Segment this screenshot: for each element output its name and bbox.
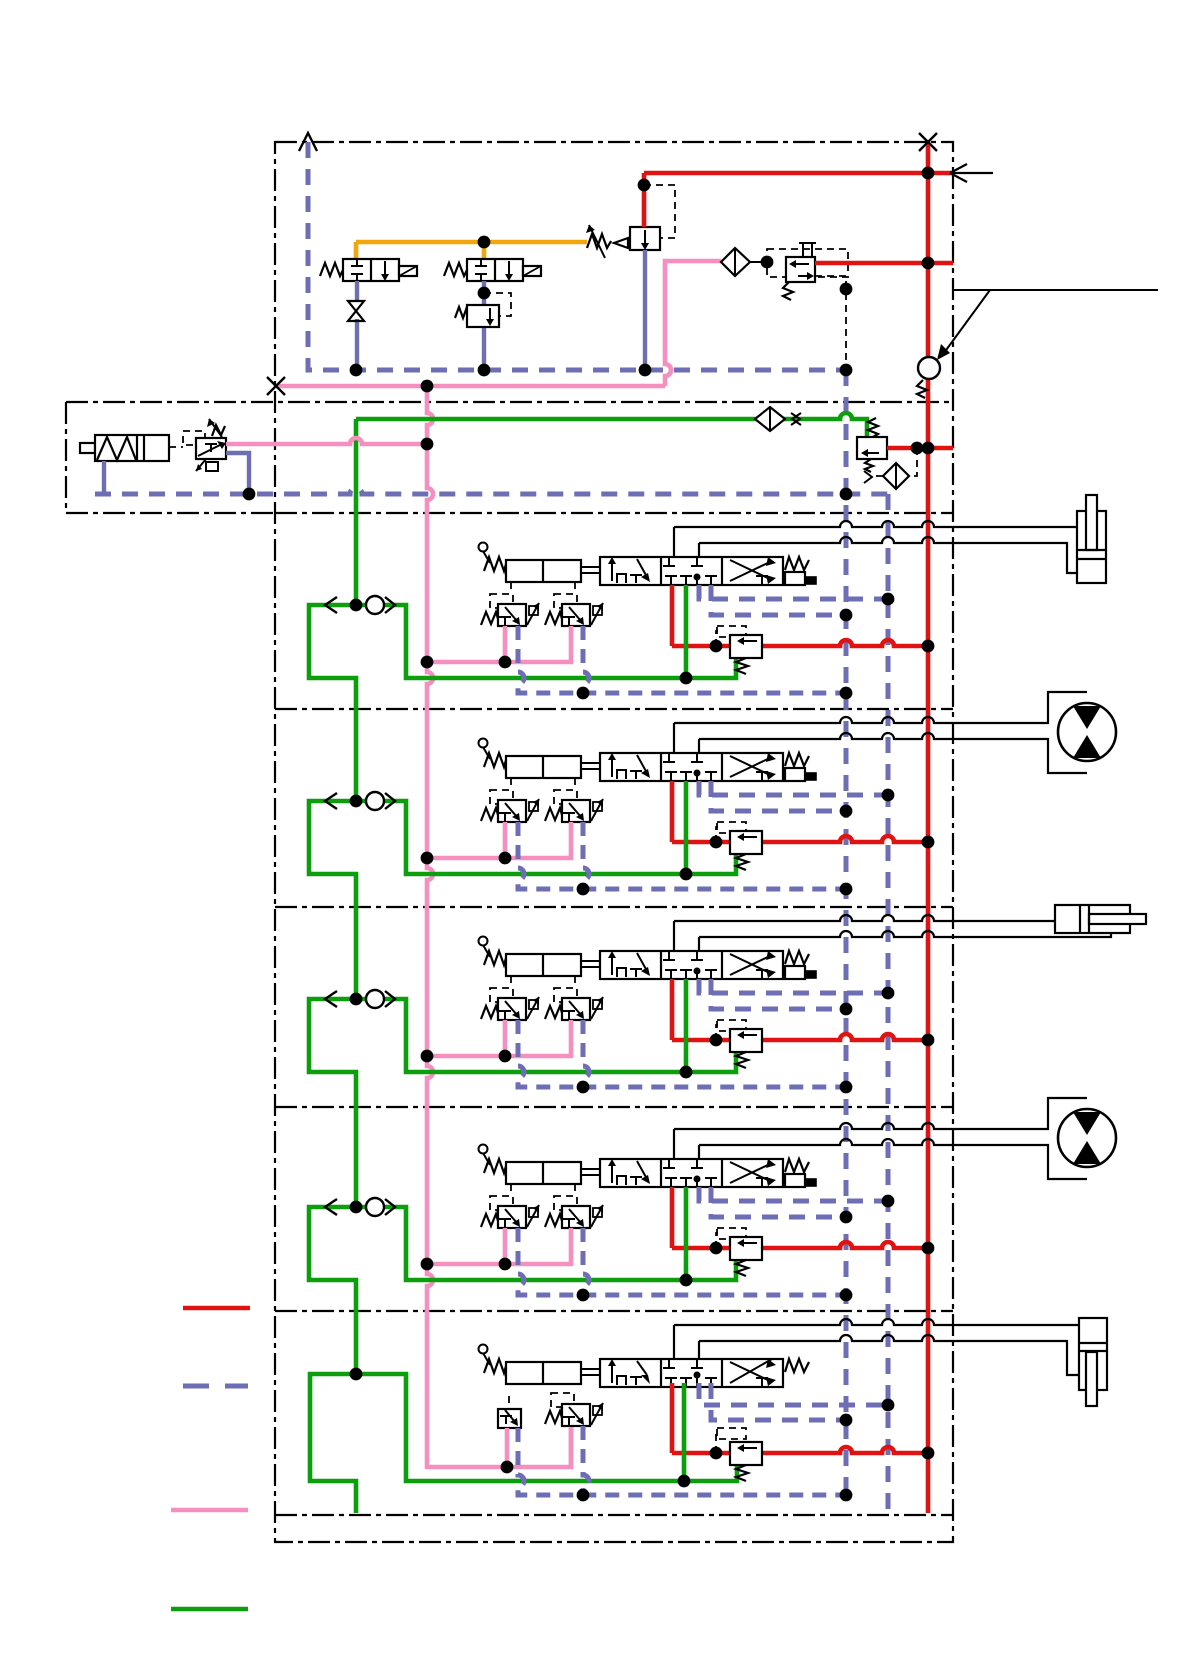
section 4 junctions pink <box>421 1258 434 1271</box>
section 5 port relief valve dashed box <box>551 1393 574 1407</box>
RV pilot sense line (black dashed) <box>815 276 846 370</box>
section 5 work port line A <box>673 1325 675 1359</box>
section 1 pilot line to trunk A (violet) <box>711 585 846 615</box>
section 4 anti-cavitation arrow <box>325 1199 337 1215</box>
section 2 port relief valve b body <box>562 800 590 822</box>
section 5 pilot spring <box>484 1359 506 1373</box>
section 4 junction red at counterbalance <box>710 1242 723 1255</box>
section divider 4 (dash-dot) <box>275 1106 953 1108</box>
section 5 port shutoff internal symbols <box>500 1416 512 1424</box>
supply port arrow (top right) <box>950 164 993 182</box>
pilot trunk line B (violet dashed, x=888) <box>886 494 891 1513</box>
section 1 anti-cavitation arrow <box>325 597 337 613</box>
section divider 2 (dash-dot) <box>275 708 953 710</box>
section 2 anti-cavitation arrow <box>325 793 337 809</box>
section 5 junction pink <box>501 1461 514 1474</box>
section 2 junctions drain <box>577 883 590 896</box>
section 1 junctions pink <box>421 656 434 669</box>
section 2 counterbalance valve body <box>730 831 762 854</box>
section 2 counterbalance pilot link <box>716 827 718 842</box>
legend green return line <box>171 1607 248 1612</box>
unloader pilot line (black dashed) <box>644 185 675 238</box>
section 4 actuator rod <box>581 1169 600 1175</box>
section 2 green return drop <box>684 781 689 874</box>
section 1 counterbalance valve body <box>730 635 762 658</box>
unloader valve pilot triangle <box>614 238 628 248</box>
pilot relief red output <box>887 446 953 451</box>
cylinder piston <box>137 435 144 461</box>
orange control line <box>356 242 587 259</box>
section 5 port shutoff pilot stub <box>508 1396 510 1409</box>
unloader valve arrow <box>644 230 646 245</box>
section 3 check valve seat <box>385 991 395 1007</box>
section 5 counterbalance pilot link <box>716 1433 718 1453</box>
section 5 valve right position symbols <box>730 1359 772 1383</box>
section 1 port relief valve b adjust arrow <box>593 606 602 615</box>
reducing valve R2 body <box>467 305 499 327</box>
section 5 counterbalance spring <box>736 1465 748 1481</box>
orifice symbol on green line <box>791 413 801 425</box>
section 4 counterbalance arrow <box>741 1242 757 1244</box>
solenoid valve V1 flow arrow <box>384 261 386 276</box>
section 3 counterbalance spring <box>736 1052 748 1068</box>
main pressure line P (red trunk) <box>926 142 931 1513</box>
section 2 main valve body <box>600 753 783 781</box>
sense filter diamond <box>883 463 909 489</box>
section 5 control lever <box>483 1353 490 1365</box>
annotation arrowhead <box>937 344 950 360</box>
solenoid valve V2 closed-port symbols <box>475 259 487 281</box>
section 5 junction green trunk <box>350 1368 363 1381</box>
section 5 red feed from trunk <box>672 1383 928 1453</box>
section 3 junction green <box>680 1066 693 1079</box>
X plug mark at top border on red trunk <box>919 133 937 151</box>
section 4 port relief valve b dashed box <box>554 1196 577 1210</box>
section 1 cylinder rod <box>1086 495 1097 550</box>
section 3 green branch with check valves <box>356 999 736 1072</box>
section 4 port relief valve b internal symbols <box>563 1219 575 1227</box>
pressure reducing valve RV body <box>786 257 815 282</box>
junction on unloader feed <box>638 179 651 192</box>
section 3 control lever knob <box>479 937 488 946</box>
section 3 pilot spring <box>484 951 506 965</box>
section divider 5 (dash-dot) <box>275 1310 953 1312</box>
section 4 main valve body <box>600 1159 783 1187</box>
section 2 red feed from trunk <box>672 781 928 842</box>
sense orifice and spring <box>865 459 873 472</box>
section 4 port relief valve b adjust arrow <box>593 1208 602 1217</box>
section 4 counterbalance valve body <box>730 1237 762 1260</box>
section 5 relief drain lines (violet) <box>518 1428 846 1495</box>
solenoid valve V2 pilot tail <box>523 266 541 276</box>
section 4 pilot spring <box>484 1159 506 1173</box>
section 4 return spring <box>785 1159 809 1172</box>
cylinder internal spring <box>97 437 136 460</box>
section 2 actuator line A <box>674 692 1087 723</box>
pressure reducing valve RV dashed enclosure <box>767 249 848 277</box>
cylinder drain stub (violet) <box>102 461 106 494</box>
section 3 port relief valve b spring <box>545 1006 562 1019</box>
pilot relief station body <box>857 437 887 459</box>
green supply line (left box row) <box>356 413 867 437</box>
section 4 counterbalance pilot link <box>716 1233 718 1248</box>
section 1 valve left position symbols <box>611 562 613 581</box>
section 2 counterbalance arrow <box>741 836 757 838</box>
section 4 relief drain lines (violet) <box>518 1228 846 1295</box>
section 5 actuator rod <box>581 1369 600 1375</box>
section 5 pilot line to trunk A (violet) <box>711 1383 846 1420</box>
section 4 port relief valve a body <box>498 1206 526 1228</box>
section 2 actuator line B <box>699 733 1087 773</box>
pink pilot-pressure trunk (x=427) <box>427 386 571 1467</box>
section 3 port relief valve a adjust arrow <box>529 1000 538 1009</box>
section 4 port relief valve a internal symbols <box>499 1219 511 1227</box>
section 1 solenoid end <box>785 572 805 585</box>
section 2 port relief valve a internal symbols <box>499 813 511 821</box>
section 1 control lever <box>483 551 490 563</box>
section 2 port relief valve a spring <box>481 808 498 821</box>
section 5 actuator line B <box>699 1335 1079 1375</box>
section 1 port relief valve b spring <box>545 612 562 625</box>
section 3 port relief valve b adjust arrow <box>593 1000 602 1009</box>
section 3 work port line A <box>673 921 675 951</box>
section 4 port relief valve a dashed box <box>490 1196 513 1210</box>
section 1 control lever knob <box>479 543 488 552</box>
section 3 actuator rod <box>581 961 600 967</box>
section 3 junctions drain <box>577 1081 590 1094</box>
section 2 port relief valve a pilot stub <box>510 778 512 790</box>
section 3 main valve body <box>600 951 783 979</box>
section 1 pink port-relief supply <box>427 626 571 662</box>
section 4 counterbalance valve dashed box <box>717 1228 746 1239</box>
section 3 pilot actuator block <box>506 954 581 976</box>
section 4 control lever knob <box>479 1145 488 1154</box>
section 2 junction red at trunk <box>922 836 935 849</box>
check/filter diamond (top) <box>721 248 750 276</box>
section 3 cylinder rod <box>1089 914 1146 924</box>
pilot relief sense line (black dashed) <box>872 448 917 476</box>
section 2 junction red at counterbalance <box>710 836 723 849</box>
section 2 hydraulic motor circle <box>1058 703 1116 761</box>
section 1 port relief valve a spring <box>481 612 498 625</box>
section 4 work port line A <box>673 1129 675 1159</box>
section 2 port relief valve a dashed box <box>490 790 513 804</box>
section 5 counterbalance valve dashed box <box>717 1428 746 1439</box>
section 1 port relief valve b pilot stub <box>574 582 576 594</box>
section 4 port relief valve a pilot stub <box>510 1184 512 1196</box>
section 4 port relief valve b body <box>562 1206 590 1228</box>
section 1 counterbalance pilot link <box>716 631 718 646</box>
junction on orange line <box>478 236 491 249</box>
RV internal arrows <box>793 263 809 265</box>
system relief indicator circle on red trunk <box>918 357 940 379</box>
section 1 relief drain lines (violet) <box>518 626 846 693</box>
section 4 junctions drain <box>577 1289 590 1302</box>
section 2 return spring <box>785 753 809 766</box>
section 5 port relief valve spring <box>545 1411 562 1424</box>
section 2 pink port-relief supply <box>427 822 571 858</box>
section 4 pink port-relief supply <box>427 1228 571 1264</box>
solenoid valve V1 closed-port symbols <box>351 259 363 281</box>
junction pink trunk start <box>421 380 434 393</box>
section 2 green branch with check valves <box>356 801 736 874</box>
section 4 actuator line A <box>674 1098 1087 1129</box>
junction RV output on red trunk <box>922 257 935 270</box>
section 5 green return drop <box>682 1383 687 1481</box>
section 2 pilot actuator block <box>506 756 581 778</box>
section 4 red feed from trunk <box>672 1187 928 1248</box>
section 1 pilot actuator block <box>506 560 581 582</box>
section 2 valve centre position symbols <box>663 753 703 762</box>
solenoid valve V1 spring <box>320 263 343 276</box>
pressure switch drain (violet) <box>226 453 249 494</box>
reducing valve R2 arrow <box>489 308 491 321</box>
section 4 port relief valve a adjust arrow <box>529 1208 538 1217</box>
section 3 control lever <box>483 945 490 957</box>
section 3 port relief valve b pilot stub <box>574 976 576 988</box>
section 1 port relief valve a adjust arrow <box>529 606 538 615</box>
section 5 port relief adjust arrow <box>593 1406 602 1415</box>
section 1 work port line B <box>698 543 700 557</box>
section 4 green return drop <box>684 1187 689 1280</box>
section 2 port relief valve b adjust arrow <box>593 802 602 811</box>
section 1 cylinder piston <box>1077 550 1106 559</box>
section 3 junctions pink <box>421 1050 434 1063</box>
section 4 junction green <box>680 1274 693 1287</box>
section 3 port relief valve a internal symbols <box>499 1011 511 1019</box>
section 3 red feed from trunk <box>672 979 928 1040</box>
section 3 port relief valve a dashed box <box>490 988 513 1002</box>
section 1 green return drop <box>684 585 689 678</box>
section 4 valve left position symbols <box>611 1164 613 1183</box>
section divider 6 (dash-dot) <box>275 1514 953 1516</box>
section 3 junction red at counterbalance <box>710 1034 723 1047</box>
section 2 port relief valve b dashed box <box>554 790 577 804</box>
section 3 counterbalance arrow <box>741 1034 757 1036</box>
section 1 hydraulic cylinder body <box>1077 511 1106 583</box>
section 4 work port line B <box>698 1145 700 1159</box>
section 2 check valve seat <box>385 793 395 809</box>
shutoff valve under V1 <box>348 301 364 311</box>
section 1 junction red at trunk <box>922 640 935 653</box>
section 3 solenoid end <box>785 966 805 979</box>
section 3 actuator line A <box>674 915 1055 921</box>
section 1 port relief valve a pilot stub <box>510 582 512 594</box>
section 1 valve centre position symbols <box>663 557 703 566</box>
section 2 port relief valve a body <box>498 800 526 822</box>
section 2 port relief valve b internal symbols <box>563 813 575 821</box>
section divider 3 (dash-dot) <box>275 906 953 908</box>
section 3 port relief valve b dashed box <box>554 988 577 1002</box>
pink output of pressure switch <box>226 438 427 444</box>
pump supply line (red, top) <box>644 171 953 176</box>
unloader valve spring with adjust arrow <box>587 234 611 248</box>
section 1 actuator line A <box>674 521 1077 527</box>
link filter to reducing valve <box>750 261 770 263</box>
section 3 valve left position symbols <box>611 956 613 975</box>
section 3 anti-cavitation arrow <box>325 991 337 1007</box>
section 5 pilot actuator block <box>506 1362 581 1384</box>
pilot drain bus (violet dashed, left box row) <box>95 488 888 494</box>
junction drain at bus <box>243 488 256 501</box>
pilot relief station arrow <box>865 452 879 454</box>
left pilot-supply box border (dash-dot) <box>66 402 953 513</box>
section 3 actuator line B <box>699 931 1111 937</box>
pressure switch spring and adjust arrow <box>212 425 225 436</box>
section 1 junction red at counterbalance <box>710 640 723 653</box>
section 3 junction green trunk <box>350 993 363 1006</box>
section 3 valve right position symbols <box>730 955 772 975</box>
section 2 control lever <box>483 747 490 759</box>
section 5 pilot line to trunk B (violet) <box>699 1383 888 1405</box>
RV red output to trunk <box>815 261 953 266</box>
legend pink pilot-pressure line <box>171 1508 248 1513</box>
spring-return cylinder body <box>95 435 169 461</box>
section 3 check valve ball <box>366 990 384 1008</box>
pilot trunk line A (violet dashed, x=846) <box>844 370 849 1495</box>
solenoid valve V1 body <box>343 259 399 281</box>
section 3 pilot line to trunk B (violet) <box>699 979 888 993</box>
section 5 actuator line A <box>674 1319 1079 1325</box>
annotation leader line <box>941 290 1158 357</box>
section 5 junction red at trunk <box>922 1447 935 1460</box>
legend red pressure line <box>183 1306 250 1311</box>
junction under valve V2 <box>478 287 491 300</box>
section 2 valve left position symbols <box>611 758 613 777</box>
section 1 port relief valve b internal symbols <box>563 617 575 625</box>
section 3 green return drop <box>684 979 689 1072</box>
section 4 pilot line to trunk B (violet) <box>699 1187 888 1201</box>
valve V2 drain line (violet) <box>482 281 486 370</box>
green return trunk with section jogs <box>309 419 356 1513</box>
section 2 counterbalance valve dashed box <box>717 822 746 833</box>
section 4 pilot line to trunk A (violet) <box>711 1187 846 1217</box>
spring-return cylinder (pilot accumulator) rod <box>80 443 95 453</box>
check valve diamond on green line <box>755 407 785 431</box>
section 1 main valve body <box>600 557 783 585</box>
section 1 pilot spring <box>484 557 506 571</box>
section 1 counterbalance arrow <box>741 640 757 642</box>
reducing valve R2 spring <box>455 307 469 318</box>
section 5 port shutoff valve body <box>498 1409 521 1428</box>
section 2 junction green <box>680 868 693 881</box>
X plug mark at pink line start <box>267 377 285 395</box>
section 5 counterbalance arrow <box>741 1447 757 1449</box>
section 1 counterbalance valve dashed box <box>717 626 746 637</box>
RV top vent symbol <box>799 243 816 257</box>
unloader valve red feed <box>642 173 647 227</box>
cylinder to switch link (black dashed) <box>169 446 183 448</box>
unloader drain (violet) <box>643 250 647 370</box>
section 1 green branch with check valves <box>356 605 736 678</box>
pressure switch body <box>196 438 226 459</box>
section 4 solenoid end <box>785 1174 805 1187</box>
section 1 port relief valve a internal symbols <box>499 617 511 625</box>
section 5 main valve body <box>600 1359 783 1387</box>
section 4 junction green trunk <box>350 1201 363 1214</box>
section 5 control lever knob <box>479 1345 488 1354</box>
section 2 control lever knob <box>479 739 488 748</box>
section 4 hydraulic motor circle <box>1058 1109 1116 1167</box>
section 1 junctions drain <box>577 687 590 700</box>
solenoid valve V1 pilot tail <box>399 266 417 276</box>
section 4 port relief valve b pilot stub <box>574 1184 576 1196</box>
section 4 green branch with check valves <box>356 1207 736 1280</box>
valve V1 drain line (violet) <box>355 281 359 370</box>
junctions on pilot bus <box>350 364 363 377</box>
section 3 work port line B <box>698 937 700 951</box>
section 3 cylinder piston <box>1080 905 1089 933</box>
section 5 return spring <box>785 1359 809 1372</box>
section 3 port relief valve a spring <box>481 1006 498 1019</box>
enclosure outer border (dash-dot) <box>275 142 953 1542</box>
section 1 check valve ball <box>366 596 384 614</box>
section 1 port relief valve a dashed box <box>490 594 513 608</box>
section 4 check valve ball <box>366 1198 384 1216</box>
section 1 junction green trunk <box>350 599 363 612</box>
section 1 return spring <box>785 557 809 570</box>
section 1 pilot line to trunk B (violet) <box>699 585 888 599</box>
pressure switch dashed box <box>183 431 205 445</box>
pilot pressure bus (violet dashed, top section) <box>308 142 846 370</box>
relief indicator spring <box>917 380 927 398</box>
pressure switch internal symbols <box>205 444 217 452</box>
reducing valve R2 pilot line (black dashed) <box>484 293 511 316</box>
section 3 counterbalance valve dashed box <box>717 1020 746 1031</box>
section 5 junction green <box>678 1475 691 1488</box>
pink supply line from trunk to filter <box>276 384 665 389</box>
section 1 work port line A <box>673 527 675 557</box>
section 2 junction green trunk <box>350 795 363 808</box>
section 1 actuator rod <box>581 567 600 573</box>
section 2 actuator rod <box>581 763 600 769</box>
section 4 motor triangles <box>1073 1112 1101 1135</box>
legend violet pilot line <box>183 1384 248 1389</box>
section 4 check valve seat <box>385 1199 395 1215</box>
section 4 pilot actuator block <box>506 1162 581 1184</box>
section 2 port relief valve b spring <box>545 808 562 821</box>
solenoid valve V2 body <box>467 259 523 281</box>
section 2 check valve ball <box>366 792 384 810</box>
junction on red supply <box>922 167 935 180</box>
section 3 port relief valve a body <box>498 998 526 1020</box>
section 4 junction red at trunk <box>922 1242 935 1255</box>
section 4 actuator line B <box>699 1139 1087 1179</box>
section 3 hydraulic cylinder body <box>1055 905 1130 933</box>
section 5 work port line B <box>698 1341 700 1359</box>
section 2 port relief valve b pilot stub <box>574 778 576 790</box>
junction pilot sense <box>840 283 853 296</box>
section 1 port relief valve b body <box>562 604 590 626</box>
section 5 cylinder piston <box>1079 1343 1107 1351</box>
RV spring <box>783 282 793 300</box>
section 5 junctions drain <box>577 1489 590 1502</box>
section 3 junction red at trunk <box>922 1034 935 1047</box>
section 4 counterbalance spring <box>736 1260 748 1276</box>
section 2 work port line B <box>698 739 700 753</box>
section 1 check valve seat <box>385 597 395 613</box>
solenoid valve V2 spring <box>444 263 467 276</box>
section 5 junction red at counterbalance <box>710 1447 723 1460</box>
section 1 actuator line B <box>699 537 1077 573</box>
section divider 1 (dash-dot) <box>275 512 953 514</box>
section 4 valve right position symbols <box>730 1163 772 1183</box>
solenoid valve V2 flow arrow <box>508 261 510 276</box>
section 3 counterbalance valve body <box>730 1029 762 1052</box>
pilot relief station spring (top) <box>868 418 878 437</box>
pink riser to filter <box>665 261 721 386</box>
junction trunk A at drain bus <box>840 488 853 501</box>
